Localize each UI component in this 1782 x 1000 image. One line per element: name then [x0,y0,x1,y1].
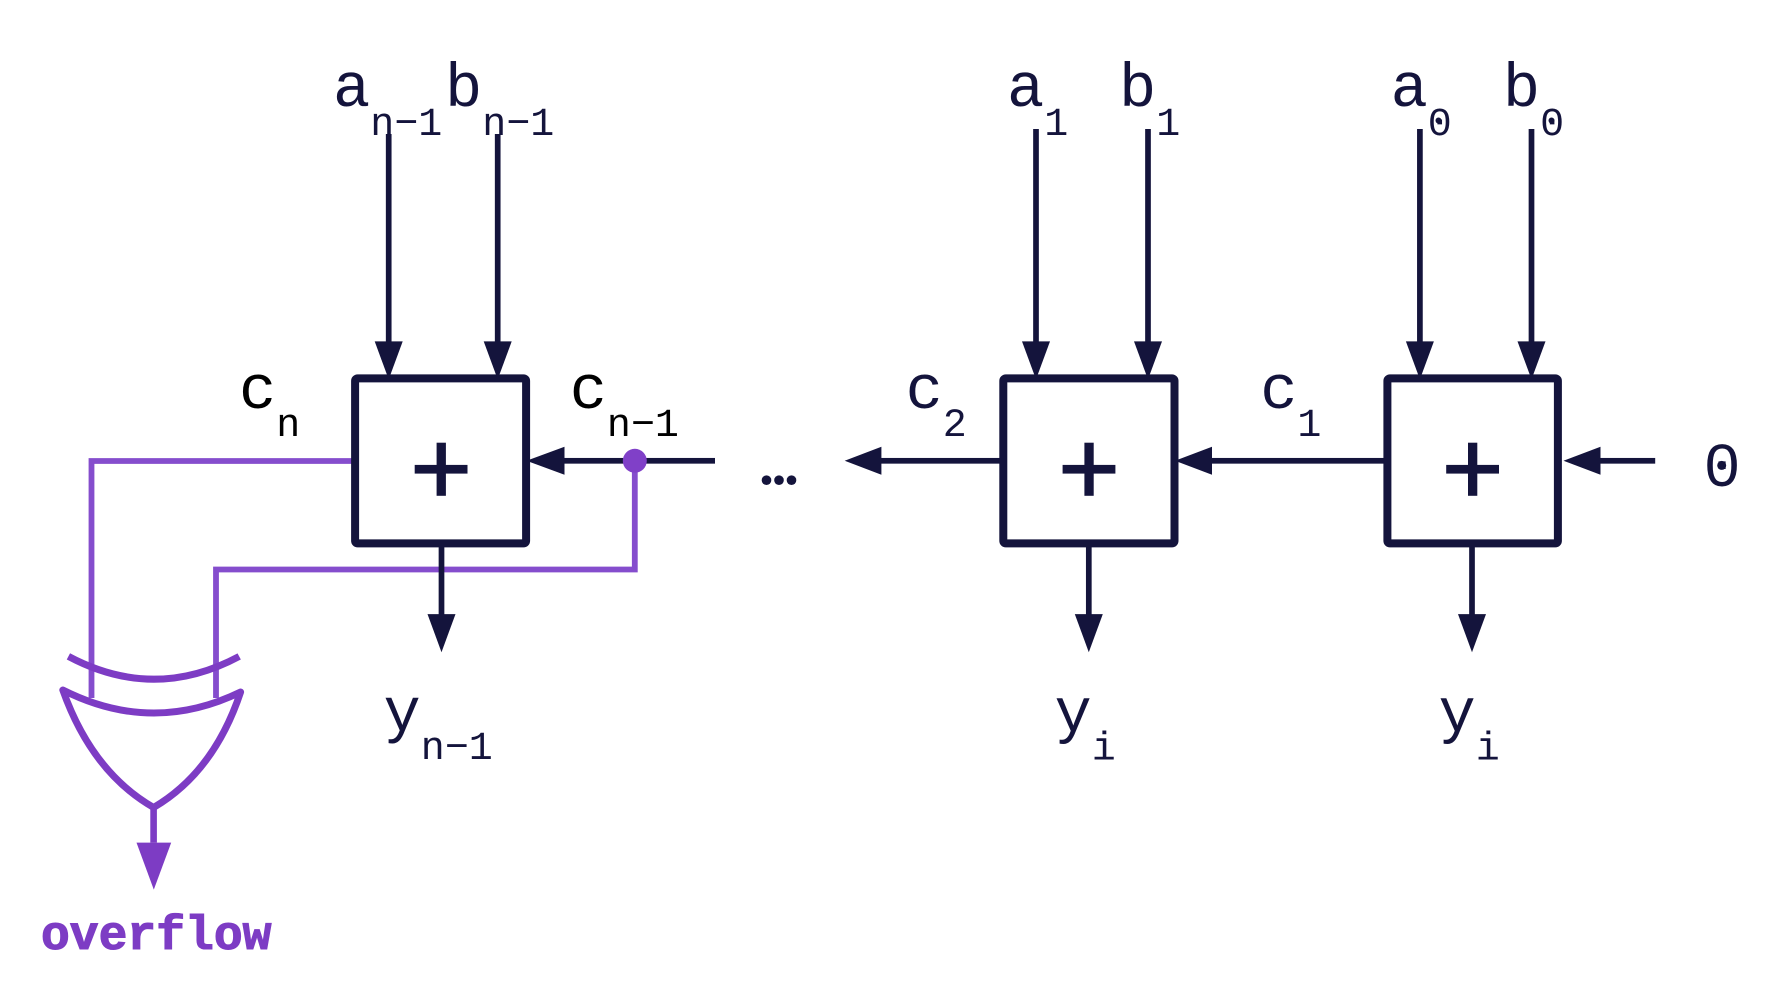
svg-text:a: a [1007,54,1044,125]
svg-text:c: c [906,356,943,427]
svg-text:b: b [1119,54,1156,125]
svg-text:n−1: n−1 [607,404,679,449]
output arrow y_i from U1 [1458,543,1486,652]
svg-text:a: a [333,54,370,125]
dot of zero glyph in a_0 subscript [1436,118,1442,124]
input arrow b_1 into U2 [1134,129,1162,379]
output arrow y_n-1 from U3 [428,543,456,652]
svg-text:0: 0 [1540,103,1564,148]
svg-text:1: 1 [1044,103,1068,148]
adder U3 (bit n-1) box [355,378,526,543]
input arrow a_1 into U2 [1022,129,1050,379]
ellipsis dots between c_2 arrow and carry-in wire [762,475,797,485]
svg-text:n−1: n−1 [421,727,493,772]
input arrow a_0 into U1 [1406,129,1434,379]
svg-text:c: c [570,356,607,427]
carry arrow c_2 out of U2 [845,447,1004,475]
svg-text:n−1: n−1 [370,103,442,148]
svg-text:overflow: overflow [41,910,272,964]
svg-text:y: y [1055,679,1092,750]
XOR gate G1 (overflow detector) upper input arc [68,656,239,679]
plus symbol of adder U3 [415,443,468,496]
XOR gate G1 body [63,690,241,808]
wire c_n-1 feedback from junction to XOR input B [216,461,635,698]
dot of zero glyph in b_0 subscript [1549,118,1555,124]
XOR gate G1 output arrow [137,806,172,890]
input arrow b_n-1 into U3 [484,134,512,379]
svg-text:i: i [1476,728,1500,773]
svg-text:c: c [239,356,276,427]
svg-text:b: b [1503,54,1540,125]
svg-text:a: a [1391,54,1428,125]
svg-text:y: y [1439,679,1476,750]
input arrow b_0 into U1 [1518,129,1546,379]
svg-text:n−1: n−1 [482,103,554,148]
plus symbol of adder U2 [1063,443,1116,496]
carry-in arrow 0 into U1 right side [1564,447,1656,475]
carry arrow c_1 from U1 into U2 [1175,447,1384,475]
svg-text:i: i [1092,728,1116,773]
junction node on carry c_n-1 wire [623,449,647,473]
svg-text:y: y [384,679,421,750]
svg-text:1: 1 [1156,103,1180,148]
svg-text:1: 1 [1297,404,1321,449]
plus symbol of adder U1 [1446,443,1499,496]
carry-in arrow into U3 right side [527,447,716,475]
input arrow a_n-1 into U3 [375,134,403,379]
adder U1 (bit 0) box [1387,378,1558,543]
svg-text:n: n [276,404,300,449]
svg-text:2: 2 [943,404,967,449]
adder U2 (bit 1) box [1003,378,1174,543]
output arrow y_i from U2 [1075,543,1103,652]
svg-text:c: c [1260,356,1297,427]
svg-text:b: b [445,54,482,125]
wire c_n feedback from box FA2 left to XOR input A [92,461,354,698]
dot of zero glyph in carry-in 0 [1717,461,1726,470]
svg-text:0: 0 [1428,103,1452,148]
